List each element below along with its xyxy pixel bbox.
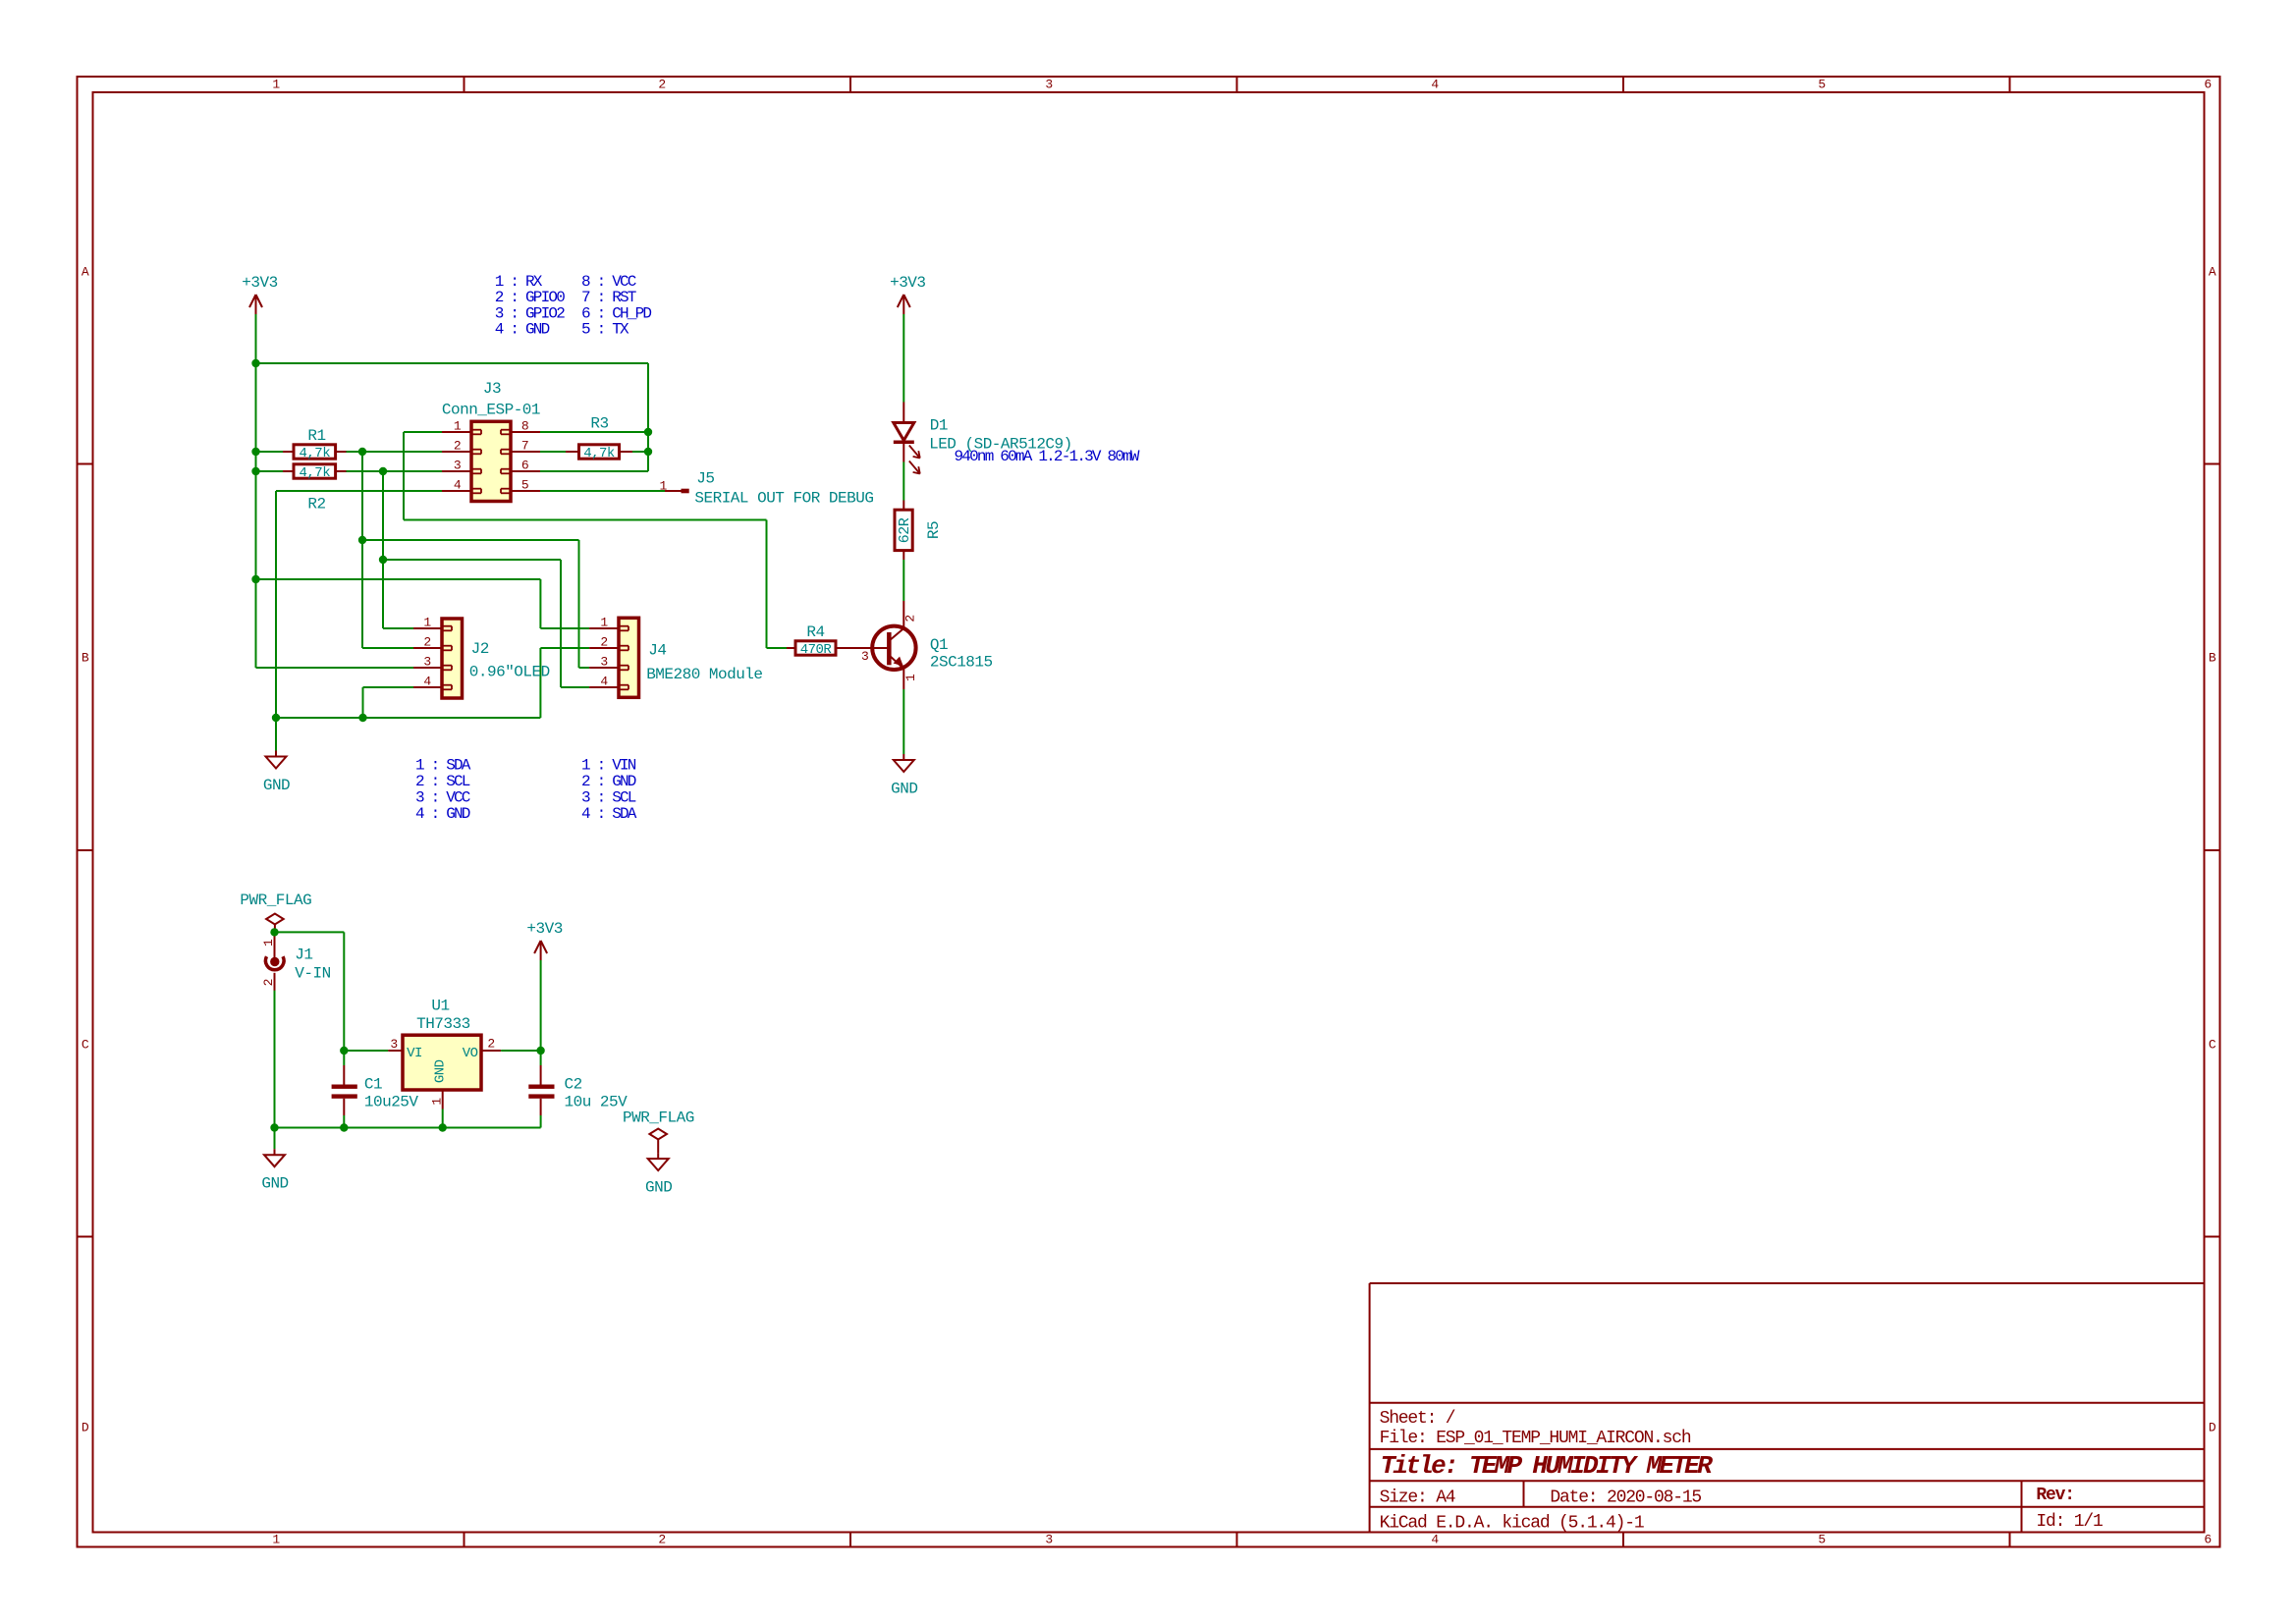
- svg-text:V-IN: V-IN: [295, 964, 330, 982]
- svg-text:1 : SDA: 1 : SDA: [415, 756, 471, 774]
- svg-text:GND: GND: [645, 1179, 672, 1197]
- svg-text:3: 3: [1045, 1533, 1052, 1547]
- svg-text:C: C: [2209, 1038, 2216, 1053]
- svg-text:VI: VI: [407, 1046, 422, 1061]
- svg-text:Id: 1/1: Id: 1/1: [2036, 1512, 2103, 1532]
- svg-text:2: 2: [600, 635, 607, 650]
- svg-text:8: 8: [521, 419, 528, 434]
- svg-text:2: 2: [261, 979, 276, 986]
- svg-text:A: A: [82, 265, 89, 280]
- svg-text:BME280 Module: BME280 Module: [646, 666, 762, 683]
- svg-text:6: 6: [521, 459, 528, 473]
- svg-text:J2: J2: [471, 640, 489, 658]
- svg-text:0.96"OLED: 0.96"OLED: [469, 663, 550, 680]
- svg-text:R4: R4: [806, 623, 824, 641]
- svg-text:3 : VCC: 3 : VCC: [415, 788, 470, 806]
- svg-text:D: D: [2209, 1421, 2216, 1435]
- svg-text:1: 1: [454, 419, 462, 434]
- svg-text:R5: R5: [925, 521, 943, 539]
- svg-text:B: B: [2209, 651, 2216, 666]
- svg-text:1: 1: [600, 616, 608, 630]
- svg-text:1: 1: [272, 1533, 280, 1547]
- svg-text:2: 2: [903, 615, 918, 622]
- svg-text:1: 1: [272, 78, 280, 92]
- svg-text:2: 2: [658, 1533, 665, 1547]
- svg-text:2: 2: [454, 439, 461, 454]
- svg-text:2SC1815: 2SC1815: [930, 654, 993, 672]
- svg-text:4,7k: 4,7k: [583, 446, 615, 461]
- svg-text:SERIAL OUT FOR DEBUG: SERIAL OUT FOR DEBUG: [694, 490, 873, 508]
- svg-text:J1: J1: [295, 947, 312, 964]
- svg-text:62R: 62R: [897, 517, 913, 543]
- svg-text:5: 5: [1818, 78, 1825, 92]
- svg-text:3: 3: [390, 1037, 397, 1052]
- svg-text:1: 1: [903, 674, 918, 681]
- svg-text:4,7k: 4,7k: [299, 446, 330, 461]
- svg-text:7: 7: [521, 439, 528, 454]
- svg-text:KiCad E.D.A. kicad (5.1.4)-1: KiCad E.D.A. kicad (5.1.4)-1: [1380, 1514, 1644, 1534]
- svg-text:5: 5: [521, 478, 528, 493]
- svg-text:TH7333: TH7333: [416, 1015, 470, 1033]
- svg-text:4 : SDA: 4 : SDA: [581, 805, 637, 823]
- svg-text:6: 6: [2204, 78, 2211, 92]
- svg-text:4 : GND: 4 : GND: [495, 321, 550, 339]
- svg-text:Conn_ESP-01: Conn_ESP-01: [442, 402, 540, 419]
- svg-text:4: 4: [423, 675, 431, 689]
- svg-text:10u 25V: 10u 25V: [565, 1093, 629, 1110]
- svg-text:3: 3: [1045, 78, 1052, 92]
- svg-text:J3: J3: [483, 380, 501, 398]
- svg-text:4,7k: 4,7k: [299, 465, 330, 481]
- svg-text:4: 4: [454, 478, 462, 493]
- svg-text:C2: C2: [565, 1076, 582, 1094]
- svg-text:GND: GND: [263, 777, 290, 794]
- svg-text:1: 1: [660, 479, 668, 494]
- svg-text:4: 4: [1431, 1533, 1439, 1547]
- svg-text:Q1: Q1: [930, 636, 948, 654]
- svg-text:2 : GND: 2 : GND: [581, 773, 636, 790]
- svg-text:+3V3: +3V3: [526, 920, 562, 938]
- svg-text:2: 2: [487, 1037, 494, 1052]
- svg-text:470R: 470R: [800, 642, 833, 658]
- svg-text:3: 3: [423, 655, 430, 670]
- svg-text:3: 3: [861, 649, 868, 664]
- svg-text:PWR_FLAG: PWR_FLAG: [240, 892, 311, 909]
- svg-text:4 : GND: 4 : GND: [415, 805, 470, 823]
- svg-text:VO: VO: [463, 1046, 478, 1061]
- svg-text:4: 4: [600, 675, 608, 689]
- svg-text:4: 4: [1431, 78, 1439, 92]
- svg-text:GND: GND: [891, 781, 917, 798]
- svg-text:6: 6: [2204, 1533, 2211, 1547]
- svg-text:1: 1: [423, 616, 431, 630]
- svg-text:1: 1: [261, 939, 276, 947]
- svg-text:1 : VIN: 1 : VIN: [581, 756, 636, 774]
- svg-text:3 : SCL: 3 : SCL: [581, 788, 636, 806]
- svg-text:D1: D1: [930, 417, 948, 435]
- svg-text:U1: U1: [431, 998, 449, 1015]
- svg-text:10u25V: 10u25V: [364, 1093, 419, 1110]
- svg-text:3: 3: [600, 655, 607, 670]
- svg-text:+3V3: +3V3: [242, 274, 277, 292]
- svg-text:5: 5: [1818, 1533, 1825, 1547]
- svg-text:D: D: [82, 1421, 89, 1435]
- svg-text:Rev:: Rev:: [2036, 1486, 2073, 1505]
- svg-text:+3V3: +3V3: [890, 274, 925, 292]
- svg-text:GND: GND: [433, 1059, 449, 1083]
- svg-text:2: 2: [658, 78, 665, 92]
- svg-text:Date: 2020-08-15: Date: 2020-08-15: [1550, 1488, 1701, 1507]
- svg-text:J5: J5: [696, 470, 714, 488]
- svg-text:R1: R1: [307, 427, 325, 445]
- svg-text:C: C: [82, 1038, 89, 1053]
- svg-text:File: ESP_01_TEMP_HUMI_AIRCON.: File: ESP_01_TEMP_HUMI_AIRCON.sch: [1380, 1429, 1691, 1448]
- svg-text:Title: TEMP HUMIDITY METER: Title: TEMP HUMIDITY METER: [1381, 1451, 1714, 1481]
- svg-text:R2: R2: [307, 496, 325, 514]
- svg-text:2 : SCL: 2 : SCL: [415, 773, 470, 790]
- svg-text:3: 3: [454, 459, 461, 473]
- svg-text:C1: C1: [364, 1076, 382, 1094]
- svg-text:5 : TX: 5 : TX: [581, 321, 629, 339]
- svg-text:B: B: [82, 651, 89, 666]
- svg-text:J4: J4: [648, 642, 666, 660]
- svg-text:940nm 60mA 1.2-1.3V 80mW: 940nm 60mA 1.2-1.3V 80mW: [955, 448, 1140, 465]
- svg-text:Sheet: /: Sheet: /: [1380, 1409, 1455, 1429]
- svg-text:Size: A4: Size: A4: [1380, 1488, 1455, 1507]
- svg-text:A: A: [2209, 265, 2216, 280]
- svg-text:2: 2: [423, 635, 430, 650]
- svg-text:GND: GND: [261, 1175, 288, 1193]
- svg-text:R3: R3: [590, 415, 608, 433]
- svg-text:PWR_FLAG: PWR_FLAG: [623, 1109, 694, 1127]
